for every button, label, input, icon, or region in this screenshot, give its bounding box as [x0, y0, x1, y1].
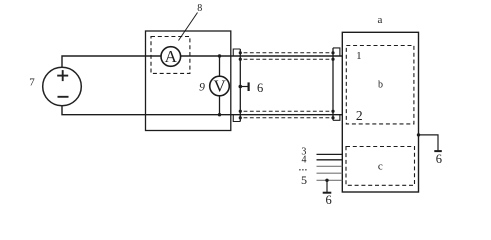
svg-text:6: 6: [325, 193, 331, 207]
svg-text:a: a: [378, 14, 383, 26]
svg-text:1: 1: [356, 50, 362, 62]
svg-text:5: 5: [301, 173, 307, 187]
svg-text:V: V: [214, 77, 227, 96]
svg-text:c: c: [378, 161, 383, 173]
svg-text:b: b: [378, 79, 383, 90]
svg-text:4: 4: [302, 155, 307, 166]
svg-text:2: 2: [356, 108, 363, 123]
svg-text:9: 9: [199, 81, 205, 93]
svg-text:8: 8: [197, 3, 202, 14]
svg-text:A: A: [165, 47, 178, 66]
svg-text:7: 7: [29, 77, 35, 89]
svg-text:6: 6: [257, 81, 263, 95]
svg-text:6: 6: [436, 152, 442, 166]
